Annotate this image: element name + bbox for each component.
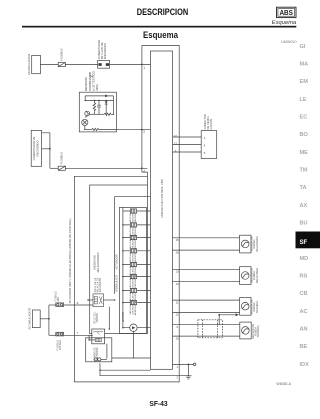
wire ground rail horizontal (100, 375, 188, 377)
svg-text:BO: BO (300, 132, 309, 138)
solenoid valve row 7 wire (122, 290, 150, 292)
wire pump bottom to control unit bottom rail (100, 363, 151, 370)
svg-text:TRASERA: TRASERA (255, 301, 259, 314)
svg-text:UNIDAD DE CONTROL ABS: UNIDAD DE CONTROL ABS (160, 179, 164, 218)
resistor R4 meter bottom zigzag (92, 128, 99, 130)
wire meter bottom exit (85, 128, 92, 130)
svg-text:AC: AC (300, 309, 308, 315)
resistor R1 meter vertical zigzag (93, 101, 96, 115)
node sensor SEN4 branch (218, 314, 220, 316)
capacitor C1 meter (97, 101, 101, 115)
svg-text:ENLACE: ENLACE (59, 340, 62, 350)
wire lower branch to fuse F4 (49, 334, 56, 336)
node relay K1 L-path junction (114, 299, 116, 301)
svg-text:EC: EC (300, 115, 308, 121)
wire relay K2 output drop (106, 344, 108, 359)
wire control unit to sensor SEN2 plus (173, 268, 240, 270)
wire meter internal rail (85, 100, 113, 102)
svg-text:UMW010: UMW010 (281, 40, 296, 44)
svg-text:15: 15 (176, 238, 180, 242)
wire control unit to check connector pin 9 (173, 151, 202, 153)
svg-text:ADMISION: ADMISION (134, 266, 137, 277)
wire pump box vertical drop (133, 331, 135, 358)
wire pump to control unit lower (112, 357, 151, 359)
svg-text:W6082-A: W6082-A (276, 382, 291, 386)
wire fuse F1 to ignition key switch S1 (65, 63, 97, 65)
wheel sensor SEN1 box (240, 235, 251, 253)
combination meter M1 box MEDIDOR COMBINADO (79, 92, 116, 132)
wire fuse F4 to pump assembly pin 7 (64, 334, 93, 336)
svg-text:14: 14 (176, 282, 180, 286)
svg-text:SF-43: SF-43 (149, 401, 167, 408)
wire motor row (123, 327, 151, 329)
wire pump drop to ground rail (99, 370, 101, 376)
section tag box ABS (277, 7, 297, 17)
node meter rail junction a (85, 100, 86, 101)
pump motor M2 circle (130, 324, 137, 331)
svg-text:ACTUADOR: ACTUADOR (114, 254, 118, 269)
node pump drop junction (99, 369, 101, 371)
relay unit box UNIDAD DE RELEVADORES (90, 185, 148, 334)
fuse F4 FUSIBLE (56, 332, 64, 336)
ground symbol (185, 376, 191, 379)
wire control unit to sensor SEN1 minus (173, 249, 240, 251)
svg-text:ADMISION: ADMISION (134, 278, 137, 289)
wire control unit ground lead (173, 363, 194, 365)
connector boundary dashed on sensor SEN4 (198, 320, 223, 338)
svg-text:MOTOR: MOTOR (121, 312, 125, 322)
connector half divider dashed right (217, 320, 219, 338)
fuse F3 FUSIBLE (56, 303, 64, 307)
wire control unit to check connector pin 10 (173, 136, 202, 138)
svg-text:DELANTERA: DELANTERA (255, 236, 259, 252)
switch S1 CONMUTADOR DE LLAVE body (98, 60, 110, 68)
svg-text:BE: BE (300, 344, 308, 350)
solenoid valve row 2 wire (122, 224, 150, 226)
svg-text:ADMISION: ADMISION (134, 212, 137, 223)
relay K1 solenoid valve relay box (93, 294, 104, 307)
solenoid valve row 7 coil (130, 288, 136, 292)
solenoid valve row 8 wire (122, 302, 150, 304)
wire relay K1 to L-path (104, 299, 115, 301)
switch S1 terminal contacts (99, 63, 110, 66)
wheel sensor SEN2 box (240, 267, 251, 285)
solenoid valve row 5 coil (130, 262, 136, 266)
lamp L1 ABS warning lamp (82, 119, 88, 125)
svg-text:BU: BU (300, 221, 308, 227)
wire control unit to sensor SEN1 plus (173, 237, 240, 239)
svg-text:30A: 30A (57, 297, 60, 302)
svg-text:TA: TA (300, 185, 307, 191)
svg-text:ACTUADOR ABS Y UNIDAD ELECTRIC: ACTUADOR ABS Y UNIDAD ELECTRICA (UNIDAD … (68, 219, 72, 304)
svg-text:FUSIBLE: FUSIBLE (59, 152, 63, 165)
svg-text:RELEVADORES: RELEVADORES (96, 252, 100, 272)
wheel sensor SEN3 box (240, 298, 251, 316)
solenoid valve row 6 coil (130, 275, 136, 279)
wire switch S2 top link (42, 133, 50, 169)
resistor R3 meter horizontal zigzag (104, 113, 113, 115)
junction at assembly boundary pin 4 (141, 167, 143, 169)
pump assembly BOMBA box (86, 338, 112, 362)
fuse F2 FUSIBLE (58, 166, 65, 170)
wire relay K2 coil feed (88, 335, 95, 341)
transistor Q1 meter (85, 111, 90, 118)
wheel sensor SEN4 box (240, 322, 251, 339)
svg-text:10: 10 (176, 336, 180, 340)
node meter rail junction b (94, 100, 95, 101)
side tab SF current section (296, 232, 320, 249)
svg-text:Esquema: Esquema (143, 30, 179, 40)
wire meter bottom exit right (99, 128, 117, 130)
node meter rail junction c (98, 100, 99, 101)
svg-text:DELANTERA: DELANTERA (255, 267, 259, 283)
solenoid valve row 6 wire (122, 276, 150, 278)
svg-text:LE: LE (300, 97, 307, 103)
svg-text:10: 10 (174, 134, 178, 138)
svg-text:DESCRIPCION: DESCRIPCION (137, 7, 189, 17)
wire upper branch to fuse F3 (49, 304, 56, 306)
junction at assembly boundary pin 2 (141, 129, 143, 131)
svg-text:ABS: ABS (279, 8, 293, 17)
svg-text:FUSIBLE: FUSIBLE (59, 48, 63, 61)
solenoid valve row 2 coil (130, 223, 136, 227)
svg-text:11: 11 (176, 300, 179, 304)
svg-text:Esquema: Esquema (272, 20, 297, 26)
solenoid valve row 4 coil (130, 249, 136, 253)
wire branch to fuse F2 (50, 167, 58, 169)
relay K2 motor relay box (92, 329, 105, 344)
svg-text:ADMISION: ADMISION (134, 292, 137, 303)
svg-text:ADMISION: ADMISION (134, 239, 137, 250)
svg-text:1: 1 (143, 66, 145, 70)
wire control unit to sensor SEN3 minus (173, 311, 240, 313)
svg-text:ENCENDIDO: ENCENDIDO (35, 140, 39, 156)
svg-text:TRASERA: TRASERA (256, 325, 260, 338)
control unit U1 UNIDAD DE CONTROL ABS box (151, 51, 173, 369)
svg-text:ACUMULADOR: ACUMULADOR (27, 53, 31, 75)
svg-text:MD: MD (300, 256, 309, 262)
wire control unit to sensor SEN2 minus (173, 281, 240, 283)
wire battery B2 to node J2 (40, 318, 49, 320)
svg-text:AX: AX (300, 203, 308, 209)
node relay K1 edge junction (87, 299, 89, 301)
svg-text:EM: EM (300, 79, 309, 85)
svg-text:2: 2 (143, 130, 145, 134)
node meter bottom junction (84, 129, 85, 130)
wire sensor SEN4 arrow (219, 313, 239, 316)
wire relay L-path to control unit (115, 197, 151, 294)
svg-text:12: 12 (176, 313, 180, 317)
wire lamp to meter bottom (84, 126, 86, 130)
wire fuse F2 to control unit pin 4 (65, 167, 147, 169)
wire relay K1 to relay K2 (108, 307, 110, 329)
svg-text:4: 4 (143, 169, 145, 173)
header rule (22, 26, 296, 28)
solenoid valve row 8 coil (130, 301, 136, 305)
svg-text:12: 12 (174, 142, 178, 146)
svg-text:ENCENDIDO: ENCENDIDO (103, 43, 107, 59)
connector half divider dashed left (202, 320, 204, 338)
diode D1 meter top arrow (105, 95, 108, 98)
wire control unit to sensor SEN3 plus (173, 299, 240, 301)
battery B2 ACUMULADOR box (32, 310, 40, 328)
solenoid valve row 5 wire (122, 264, 150, 266)
node J2 junction (48, 318, 50, 320)
wire sensor SEN4 branch vertical (218, 315, 220, 325)
solenoid valve row 4 wire (122, 250, 150, 252)
wire ground drop (187, 364, 189, 375)
svg-text:SOLENOIDE: SOLENOIDE (99, 277, 102, 292)
wire battery B1 to fuse F1 (40, 63, 58, 65)
svg-text:MOTOR: MOTOR (96, 313, 99, 322)
node meter rail junction d (106, 100, 107, 101)
svg-text:ACUMULADOR: ACUMULADOR (28, 307, 32, 329)
node ground rail junction (188, 375, 190, 377)
svg-text:GI: GI (300, 44, 306, 50)
svg-text:SF: SF (300, 240, 308, 246)
svg-text:MA: MA (300, 62, 309, 68)
svg-text:AN: AN (300, 327, 308, 333)
switch S2 CONMUTADOR DE ENCENDIDO box (31, 130, 41, 166)
solenoid valve row 1 wire (123, 210, 151, 212)
wire fuse F3 to actuator pin 8 (64, 304, 93, 306)
wire battery branch vertical (48, 305, 50, 335)
node motor bus junction (122, 327, 124, 329)
battery B1 ACUMULADOR box (32, 55, 41, 73)
svg-text:ABS): ABS) (95, 84, 99, 91)
wire control unit to sensor SEN4 minus (173, 335, 240, 337)
node ground junction (188, 364, 190, 366)
wire control unit to check connector pin 12 (173, 144, 202, 146)
diode D2 meter vertical (105, 101, 108, 115)
wire meter to control unit pin 2 (116, 129, 150, 131)
svg-text:RS: RS (300, 274, 308, 280)
svg-text:RETORNO: RETORNO (96, 348, 99, 361)
svg-text:16: 16 (176, 250, 180, 254)
solenoid valve row 1 coil (130, 209, 136, 213)
terminal eyelet ground (193, 363, 196, 366)
solenoid valve row 3 wire (122, 237, 150, 239)
node meter lower rail right (113, 114, 114, 115)
assembly boundary jog (142, 172, 148, 185)
wire switch S2 to node J1 (42, 148, 50, 150)
wire switch S1 to ABS unit pin 1 (110, 63, 151, 65)
svg-text:ADMISION: ADMISION (134, 304, 137, 315)
wire relay K1 to box C edge (88, 299, 93, 301)
ABS actuator assembly outer boundary (74, 46, 179, 382)
node J1 junction (49, 148, 51, 150)
terminal circles pump (94, 358, 107, 361)
check connector CONECTOR DE VERIFICACION box (201, 131, 217, 159)
wire meter lower rail (89, 113, 104, 115)
svg-text:CACION: CACION (209, 119, 213, 130)
node relay K2 top junction (109, 328, 111, 330)
wire control unit to sensor SEN4 plus (173, 324, 240, 326)
junction at assembly boundary pin 1 (141, 64, 143, 66)
svg-text:IDX: IDX (300, 362, 310, 368)
actuator inner box ACTUADOR (120, 207, 147, 333)
wire meter internal top (85, 96, 113, 114)
wire solenoid common bus (122, 207, 124, 327)
fuse F1 FUSIBLE (58, 63, 65, 67)
svg-text:CB: CB (300, 291, 308, 297)
svg-text:ADMISION: ADMISION (134, 226, 137, 237)
svg-text:TM: TM (300, 168, 308, 174)
svg-text:ADMISION: ADMISION (134, 252, 137, 263)
svg-text:ME: ME (300, 150, 309, 156)
svg-text:13: 13 (176, 270, 180, 274)
solenoid valve row 3 coil (130, 235, 136, 239)
svg-text:HIDRAULICO: HIDRAULICO (114, 275, 118, 292)
